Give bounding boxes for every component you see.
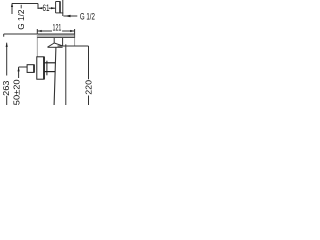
nub bottom xyxy=(45,71,56,73)
body rectangle xyxy=(37,57,44,79)
svg-text:G 1/2: G 1/2 xyxy=(16,9,26,29)
svg-text:50±20: 50±20 xyxy=(12,79,22,105)
arrowheads xyxy=(6,3,75,72)
svg-text:121: 121 xyxy=(53,23,62,34)
plate xyxy=(46,61,48,76)
wire xyxy=(53,38,55,43)
wire xyxy=(62,30,75,32)
wire xyxy=(37,30,52,32)
wire xyxy=(55,2,57,14)
wire xyxy=(12,3,38,5)
wire xyxy=(65,44,67,105)
wire xyxy=(59,2,61,13)
wire xyxy=(62,0,64,16)
wire xyxy=(37,4,39,10)
wire xyxy=(6,43,8,76)
nub top xyxy=(45,62,56,64)
svg-text:61: 61 xyxy=(43,3,50,14)
svg-text:263: 263 xyxy=(1,80,11,96)
wire xyxy=(74,38,76,46)
wire xyxy=(74,29,76,38)
wire xyxy=(36,34,38,57)
wire xyxy=(48,43,55,47)
wire xyxy=(63,15,77,17)
wire xyxy=(4,33,75,35)
wire xyxy=(36,29,38,34)
wire xyxy=(88,96,90,106)
wire xyxy=(56,12,64,14)
wire xyxy=(49,7,56,9)
svg-text:220: 220 xyxy=(83,80,93,95)
wire xyxy=(6,96,8,105)
wire xyxy=(19,66,27,68)
gray bar fill xyxy=(38,35,75,38)
wire xyxy=(48,46,63,48)
wire xyxy=(62,38,64,47)
wire xyxy=(20,5,22,9)
handle knob xyxy=(27,65,34,73)
wire xyxy=(18,67,20,78)
wire xyxy=(54,48,56,106)
wire xyxy=(11,4,13,15)
wire xyxy=(38,7,42,9)
node A xyxy=(56,1,61,3)
wire xyxy=(58,45,89,47)
wire xyxy=(54,43,62,46)
wire xyxy=(88,46,90,79)
wire xyxy=(37,37,74,39)
svg-text:G 1/2: G 1/2 xyxy=(80,12,95,22)
wire xyxy=(3,34,5,37)
